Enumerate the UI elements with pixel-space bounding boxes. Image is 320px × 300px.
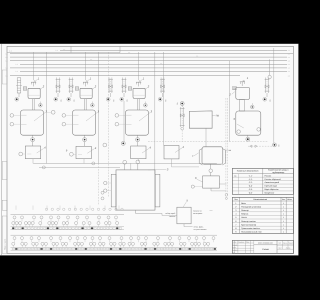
svg-text:на расстоянии: на расстоянии xyxy=(194,228,207,231)
wire long drop g1 xyxy=(46,52,48,163)
M0 left gauges xyxy=(104,181,107,184)
svg-text:вальцовке: вальцовке xyxy=(193,212,202,215)
instrument on drop g2 xyxy=(103,143,107,147)
svg-text:Реактор: Реактор xyxy=(241,209,249,212)
M1 right wall xyxy=(222,148,225,165)
measuring tank A xyxy=(25,146,40,159)
gauge at box F xyxy=(191,185,194,188)
svg-text:9: 9 xyxy=(235,231,236,234)
instrument band circles row 2 xyxy=(12,242,15,245)
level gauges on R1 xyxy=(10,114,14,118)
svg-text:1: 1 xyxy=(283,223,284,226)
svg-text:трубопроводе: трубопроводе xyxy=(272,171,284,174)
small vessel T1 xyxy=(28,88,40,98)
pump on drop near tank C xyxy=(123,101,125,141)
gauges at R4 xyxy=(237,130,241,134)
process box E xyxy=(177,207,191,224)
rail y163.5 xyxy=(33,162,217,164)
measuring tank C xyxy=(131,146,146,159)
apparatus group 1: left riser pipe xyxy=(15,78,22,101)
svg-text:Фильтровальный стол: Фильтровальный стол xyxy=(241,231,262,234)
instrument band terminal strip xyxy=(11,246,218,248)
svg-text:6: 6 xyxy=(235,220,236,223)
svg-text:Травильная емкость: Травильная емкость xyxy=(241,227,260,230)
svg-text:Н.контр.: Н.контр. xyxy=(233,250,239,252)
svg-text:1: 1 xyxy=(283,209,284,212)
M1 left wall xyxy=(199,148,202,165)
scan black edge right xyxy=(298,44,300,256)
vacuum machine M0 body xyxy=(116,170,155,210)
gauge left of tank A xyxy=(19,152,23,156)
svg-text:Подп. и дата: Подп. и дата xyxy=(4,238,7,250)
instrument on drop g1 xyxy=(51,110,55,114)
tank bottom links xyxy=(32,159,34,164)
svg-text:Насос: Насос xyxy=(241,216,247,219)
discharge pipe below T2 xyxy=(84,99,86,110)
electric motor M3 xyxy=(128,87,132,90)
big vessel R2 xyxy=(73,110,96,135)
PV heater box xyxy=(189,111,212,128)
gauge left of tank B xyxy=(70,152,74,156)
rail y167.5 with inline instrument xyxy=(39,166,120,168)
M0 top nozzles xyxy=(124,164,126,170)
top-left document designation strip xyxy=(7,52,120,54)
box F outlets xyxy=(219,183,226,185)
svg-text:Подп: Подп xyxy=(246,242,249,244)
title block xyxy=(232,240,293,253)
svg-text:1: 1 xyxy=(283,231,284,234)
pipe from bus to T2 xyxy=(84,52,86,80)
svg-text:отбор проб: отбор проб xyxy=(165,212,175,215)
svg-text:1: 1 xyxy=(235,202,236,205)
svg-text:Наименование: Наименование xyxy=(253,198,268,201)
bus drop to group 4 xyxy=(229,61,231,142)
svg-text:1: 1 xyxy=(283,202,284,205)
support column under T4 xyxy=(240,100,245,111)
wire pipe-main 2 xyxy=(10,53,293,55)
svg-text:Расходная установка: Расходная установка xyxy=(241,205,262,208)
svg-text:Кристаллизатор: Кристаллизатор xyxy=(241,223,257,226)
wire drop to M0 right column xyxy=(154,52,156,174)
pipe PV to dryer M1 xyxy=(205,128,207,147)
svg-text:Условные обозначения: Условные обозначения xyxy=(237,169,259,172)
pipe from bus to T3 xyxy=(137,52,139,80)
svg-text:Масса: Масса xyxy=(283,242,287,244)
svg-text:-3.3-: -3.3- xyxy=(248,188,252,191)
wire pipe-main 7 xyxy=(20,70,287,72)
wire pipe-main 6 xyxy=(10,67,287,69)
svg-text:1: 1 xyxy=(283,220,284,223)
instrument band top rail xyxy=(11,234,218,236)
wire pipe-main 3 xyxy=(10,56,287,58)
svg-text:-4.6-: -4.6- xyxy=(248,192,252,195)
electric motor M2 xyxy=(75,87,79,90)
wire box E bottom xyxy=(183,224,185,227)
svg-text:Изм: Изм xyxy=(233,242,236,244)
instrument band circles row 2 xyxy=(12,222,15,225)
svg-text:Сушка на: Сушка на xyxy=(193,209,202,212)
instrument circle near T1 xyxy=(39,102,43,108)
instrument circle top right xyxy=(268,75,271,78)
instrument band circles row 1 xyxy=(13,216,16,219)
svg-text:1: 1 xyxy=(283,205,284,208)
M0 feed pipe xyxy=(130,163,132,170)
left margin stamp box upper xyxy=(2,70,7,84)
svg-text:Масшт: Масшт xyxy=(289,242,294,244)
measuring tank B xyxy=(76,146,91,158)
tank D link down xyxy=(171,159,173,167)
agitator drive of T2 xyxy=(83,81,88,87)
sheet left edge shadow xyxy=(1,44,3,255)
instrument band terminal strip xyxy=(11,226,125,228)
svg-text:7: 7 xyxy=(235,223,236,226)
wire long drop g2 xyxy=(97,52,99,163)
wire pipe-main 4 xyxy=(10,60,287,62)
pump under R3 xyxy=(137,135,139,137)
riser near PV (pump on top) xyxy=(180,102,184,106)
agitator drive of T1 xyxy=(31,81,36,87)
wire pipe-main 5 xyxy=(20,63,287,65)
valve-riser 2R xyxy=(106,78,115,103)
svg-text:Поз: Поз xyxy=(234,198,237,201)
motor M4 xyxy=(233,86,237,89)
parts list table xyxy=(232,197,293,233)
svg-text:-4.4-: -4.4- xyxy=(248,185,252,188)
wire pipe-main 8 xyxy=(10,75,240,77)
pipe from bus to T1 xyxy=(32,52,34,80)
roller dryer M1 body xyxy=(202,147,223,164)
legend table xyxy=(232,168,293,194)
svg-text:ПВ: ПВ xyxy=(216,115,220,118)
pump under R2 xyxy=(84,135,86,137)
svg-text:Весы: Весы xyxy=(241,202,246,205)
big vessel R4 xyxy=(236,111,261,135)
dashed vertical to tables xyxy=(225,98,227,194)
svg-text:Реактор смески: Реактор смески xyxy=(241,220,256,223)
instrument circle on R4 top xyxy=(251,103,255,109)
discharge pipe below T1 xyxy=(32,99,34,110)
apparatus group 3: left riser pipe xyxy=(120,78,129,103)
svg-text:-2.2-: -2.2- xyxy=(248,181,252,184)
wire drop to box D xyxy=(163,52,165,146)
apparatus group 2: left riser pipe xyxy=(67,78,76,103)
instrument circle near T3 xyxy=(144,102,148,108)
svg-text:4: 4 xyxy=(235,213,236,216)
M0 right column xyxy=(155,174,160,207)
svg-text:Вода обратная: Вода обратная xyxy=(265,188,279,191)
riser right of group 4 xyxy=(263,78,272,103)
big vessel R1 xyxy=(21,110,44,135)
small vessel T3 xyxy=(133,88,145,98)
valve-riser 1R xyxy=(54,78,63,103)
big vessel R3 xyxy=(126,110,149,135)
pump bottom right xyxy=(273,143,277,147)
svg-text:Рассол обратный: Рассол обратный xyxy=(265,178,281,181)
M0 bottom outlet xyxy=(135,210,137,213)
agitator drive of T3 xyxy=(136,81,141,87)
dashed rail y141.5 xyxy=(148,141,268,143)
level gauges on R2 xyxy=(62,114,66,118)
svg-text:Горячая вода: Горячая вода xyxy=(265,185,278,188)
upper sparse circles over band1 xyxy=(45,208,47,210)
arrow into box E xyxy=(162,214,177,216)
svg-text:8: 8 xyxy=(235,227,236,230)
svg-text:непр. фикс.: непр. фикс. xyxy=(194,226,205,229)
svg-text:-1.1-: -1.1- xyxy=(248,174,252,177)
discharge pipe below T3 xyxy=(137,99,139,110)
band risers xyxy=(15,206,17,210)
svg-text:2: 2 xyxy=(228,92,231,96)
left margin stamp boxes xyxy=(2,162,7,180)
group 4: small vessel T4 xyxy=(236,88,250,100)
svg-text:Схема: Схема xyxy=(262,248,269,251)
svg-text:Обозн.: Обозн. xyxy=(287,198,293,201)
title block right cells xyxy=(277,244,294,246)
svg-text:№ докум.: № докум. xyxy=(238,242,244,244)
vertical drop to pump far right xyxy=(273,48,275,143)
left instrument chain xyxy=(101,191,104,194)
svg-text:Лит: Лит xyxy=(279,242,282,244)
M0 left column xyxy=(111,174,116,207)
svg-text:1-1: 1-1 xyxy=(9,50,12,53)
svg-text:Аммиак жидкий: Аммиак жидкий xyxy=(265,181,279,184)
svg-text:Разраб.: Разраб. xyxy=(233,244,238,246)
svg-text:Конденсат: Конденсат xyxy=(265,192,275,195)
svg-text:Листов: Листов xyxy=(286,247,291,249)
small vessel T2 xyxy=(80,88,92,98)
svg-text:1: 1 xyxy=(283,213,284,216)
wire pipe-main 1 xyxy=(60,49,287,51)
level gauges on R3 xyxy=(115,114,119,118)
pump under R1 xyxy=(32,135,34,137)
instrument band circles row 1 xyxy=(13,237,16,240)
M1 outlet instrument xyxy=(210,164,212,169)
instrument band top rail xyxy=(11,214,125,216)
pump under R4 xyxy=(247,135,249,137)
dashed pipe to pump right xyxy=(248,145,272,147)
drop from bus to instrument xyxy=(269,59,271,75)
valve-riser 3R xyxy=(158,78,167,103)
svg-text:-1.2-: -1.2- xyxy=(248,178,252,181)
svg-text:Мерник: Мерник xyxy=(241,213,248,216)
electric motor M1 xyxy=(23,87,27,90)
instrument circle near T2 xyxy=(91,102,95,108)
svg-text:Рассол: Рассол xyxy=(265,174,272,177)
svg-text:Лист: Лист xyxy=(278,247,281,249)
collector box F xyxy=(203,176,220,188)
svg-text:1: 1 xyxy=(283,227,284,230)
svg-text:5: 5 xyxy=(235,216,236,219)
white drawing sheet xyxy=(0,44,299,256)
svg-text:1: 1 xyxy=(283,216,284,219)
svg-text:Кол: Кол xyxy=(282,198,285,201)
drawing frame border xyxy=(7,46,294,253)
dashed control line x108 xyxy=(108,52,110,197)
measuring tank D xyxy=(164,146,179,159)
svg-text:2: 2 xyxy=(235,205,236,208)
svg-text:3: 3 xyxy=(235,209,236,212)
agitator drive of T4 xyxy=(240,80,245,86)
